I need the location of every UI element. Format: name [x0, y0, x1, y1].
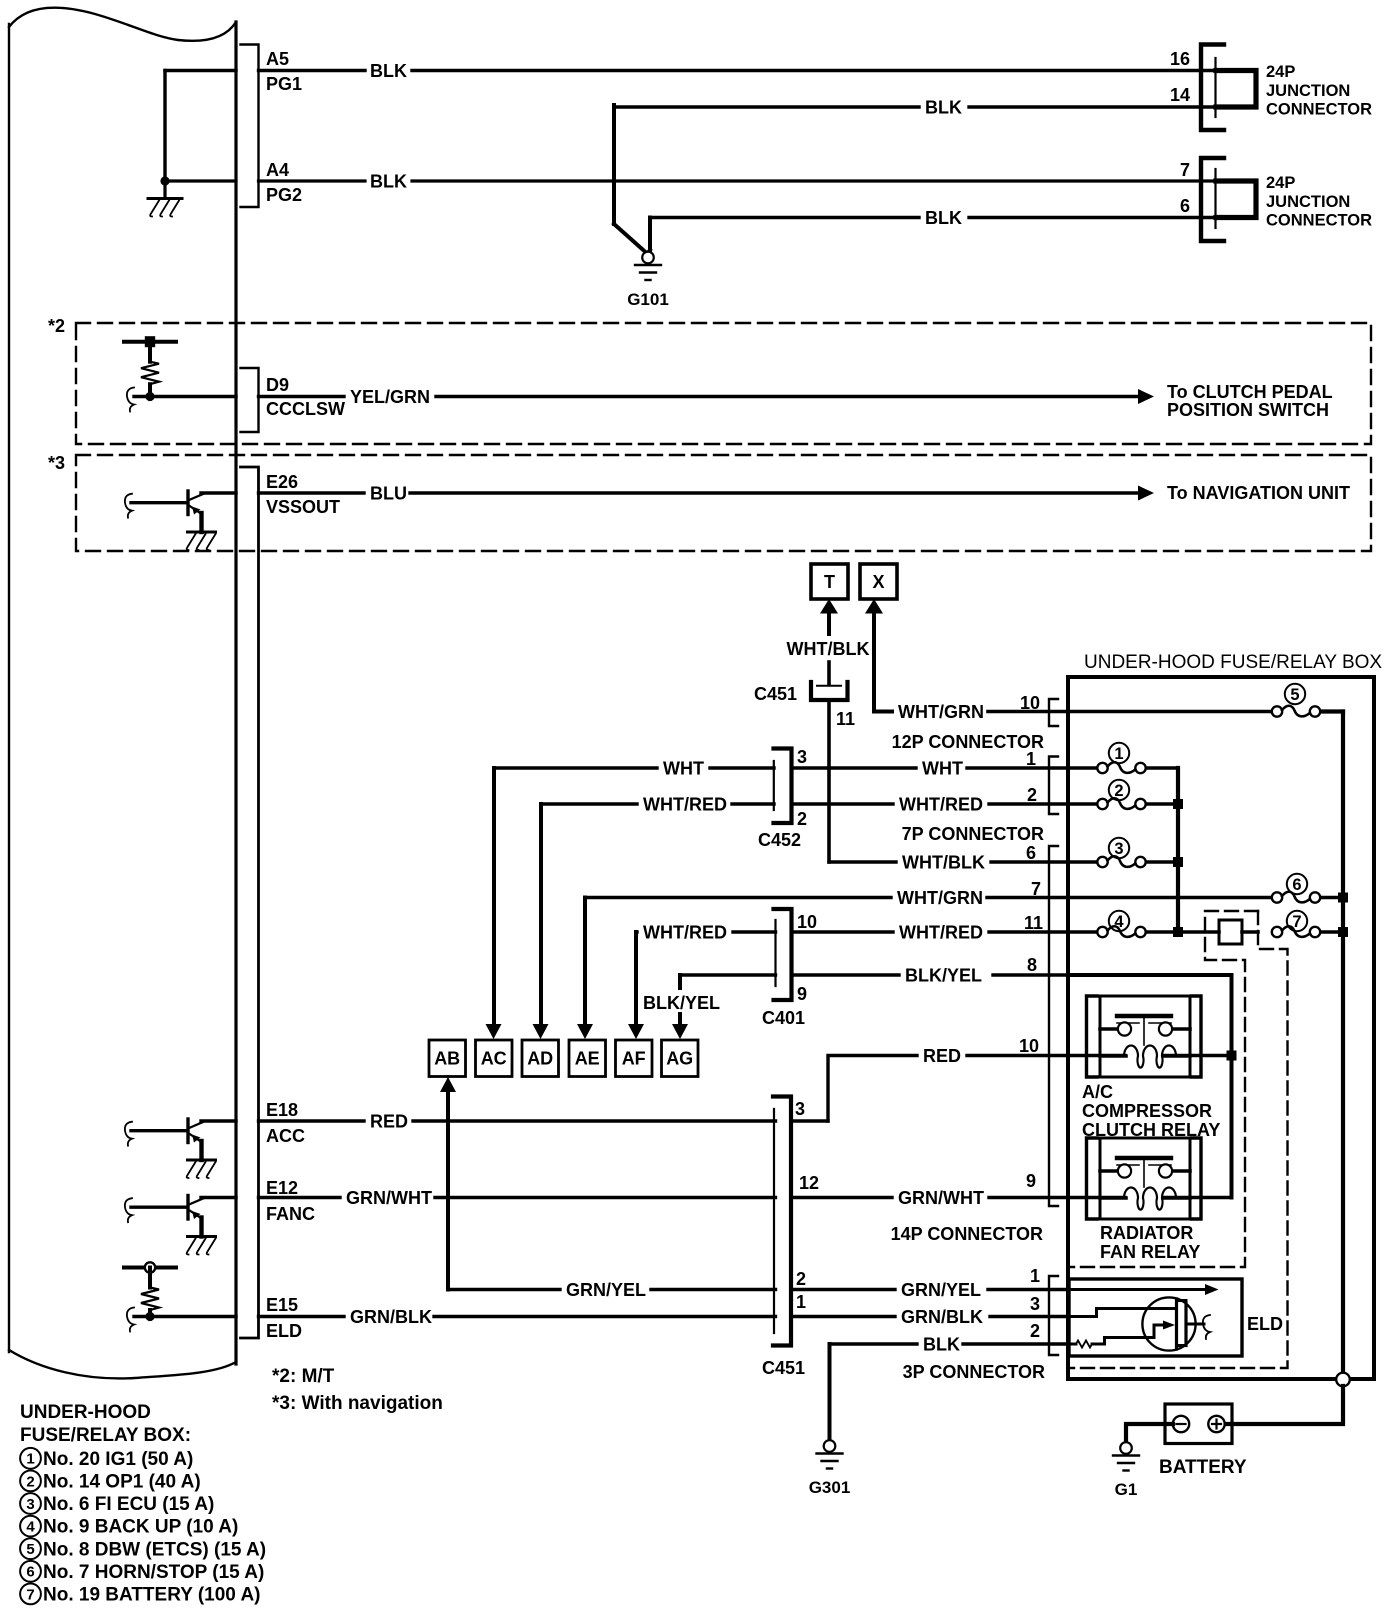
svg-text:FAN RELAY: FAN RELAY [1100, 1242, 1200, 1262]
wire BLK/YEL to relay coils [1068, 975, 1232, 1198]
svg-text:WHT/BLK: WHT/BLK [787, 639, 870, 659]
svg-text:CONNECTOR: CONNECTOR [1266, 212, 1372, 230]
svg-text:*3: With navigation: *3: With navigation [272, 1393, 443, 1414]
svg-text:FANC: FANC [266, 1204, 315, 1224]
svg-text:WHT/BLK: WHT/BLK [902, 853, 985, 873]
relay brackets [1087, 996, 1098, 1077]
connector C401 [774, 909, 792, 1000]
svg-text:14: 14 [1170, 85, 1190, 105]
svg-text:24P: 24P [1266, 174, 1295, 192]
node AB box [429, 1040, 466, 1077]
legend fuse 1 [20, 1448, 41, 1469]
dashed box *2 (M/T) [76, 323, 1371, 444]
svg-text:7: 7 [1180, 160, 1190, 180]
svg-text:No. 9 BACK UP (10 A): No. 9 BACK UP (10 A) [43, 1517, 238, 1538]
ground loop A5-A4 [165, 69, 236, 72]
wire WHT/RED row [541, 802, 637, 805]
svg-text:2: 2 [1030, 1321, 1040, 1341]
svg-text:1: 1 [1026, 749, 1036, 769]
svg-text:AB: AB [434, 1049, 460, 1069]
wire WHT/RED branch to AD [539, 804, 543, 1026]
ground [188, 1235, 216, 1238]
svg-text:BLK: BLK [370, 172, 407, 192]
legend fuse 2 [20, 1471, 41, 1492]
svg-text:10: 10 [1020, 693, 1040, 713]
ground [188, 1159, 216, 1162]
svg-text:A/C: A/C [1082, 1082, 1113, 1102]
svg-text:3: 3 [797, 747, 807, 767]
node T arrow [820, 599, 838, 614]
svg-text:BLK: BLK [923, 1335, 960, 1355]
transistor base wire [125, 1198, 132, 1222]
junction loop 16-14 [1216, 71, 1256, 108]
svg-text:*2: M/T: *2: M/T [272, 1366, 335, 1387]
legend fuse 7 [20, 1584, 41, 1605]
wire BLK to 3P pin 2 [830, 1342, 918, 1345]
node X box [860, 564, 897, 599]
svg-text:RED: RED [370, 1112, 408, 1132]
svg-text:C451: C451 [762, 1358, 805, 1378]
fuse 2 [1109, 780, 1129, 800]
3P connector bracket [1049, 1276, 1058, 1355]
ELD source wire with resistor [1069, 1343, 1076, 1346]
arrow to clutch pedal position switch [1138, 389, 1154, 404]
legend fuse 3 [20, 1493, 41, 1514]
node AG box [662, 1040, 699, 1077]
relay body [1100, 996, 1190, 1077]
svg-text:C451: C451 [754, 684, 797, 704]
ECM/PCM torn-edge outline [9, 8, 236, 41]
wire to G301 [828, 1344, 832, 1441]
svg-text:7P CONNECTOR: 7P CONNECTOR [902, 824, 1044, 844]
connector C451 bottom [773, 1097, 791, 1346]
fuse bus wire [1176, 768, 1180, 932]
svg-text:VSSOUT: VSSOUT [266, 497, 340, 517]
wire D9 YEL/GRN [127, 388, 134, 412]
fuse 4 [1109, 911, 1129, 931]
svg-text:8: 8 [1027, 955, 1037, 975]
svg-text:A5: A5 [266, 49, 289, 69]
svg-text:FUSE/RELAY BOX:: FUSE/RELAY BOX: [20, 1425, 191, 1446]
junction connector 1 bracket [1201, 45, 1224, 131]
svg-text:To CLUTCH PEDAL: To CLUTCH PEDAL [1167, 382, 1333, 402]
svg-text:GRN/BLK: GRN/BLK [901, 1307, 983, 1327]
relay brackets [1087, 1138, 1098, 1219]
node X arrow wire WHT/GRN [865, 599, 883, 614]
svg-text:GRN/WHT: GRN/WHT [346, 1188, 432, 1208]
svg-text:JUNCTION: JUNCTION [1266, 193, 1350, 211]
svg-text:9: 9 [797, 984, 807, 1004]
svg-text:5: 5 [26, 1541, 34, 1558]
wire BLK pin 14 to G101 [614, 105, 919, 108]
ground [163, 183, 166, 197]
svg-text:AG: AG [666, 1049, 693, 1069]
transistor [186, 1196, 189, 1220]
svg-text:6: 6 [1026, 843, 1036, 863]
dashed module outline [1068, 911, 1258, 1267]
svg-text:3: 3 [1030, 1294, 1040, 1314]
svg-text:2: 2 [796, 1269, 806, 1289]
battery [1165, 1404, 1232, 1444]
svg-text:G101: G101 [627, 290, 669, 309]
12P connector bracket [1049, 699, 1058, 726]
svg-text:COMPRESSOR: COMPRESSOR [1082, 1101, 1212, 1121]
14P connector bracket [1049, 846, 1058, 1206]
svg-text:BLU: BLU [370, 484, 407, 504]
ground G1 [1120, 1442, 1132, 1454]
svg-text:AD: AD [527, 1049, 553, 1069]
svg-text:PG1: PG1 [266, 74, 302, 94]
svg-text:To NAVIGATION UNIT: To NAVIGATION UNIT [1167, 483, 1350, 503]
junction connector 2 bracket [1201, 158, 1224, 241]
wire RED row [828, 1056, 917, 1122]
svg-text:No. 19 BATTERY (100 A): No. 19 BATTERY (100 A) [43, 1585, 261, 1606]
node AF box [616, 1040, 653, 1077]
relay contact [1117, 1156, 1171, 1160]
arrow into AG [672, 1024, 688, 1039]
svg-text:12P CONNECTOR: 12P CONNECTOR [892, 732, 1044, 752]
wire battery negative to G1 [1126, 1424, 1173, 1443]
svg-text:14P CONNECTOR: 14P CONNECTOR [891, 1224, 1043, 1244]
svg-text:GRN/BLK: GRN/BLK [350, 1307, 432, 1327]
svg-text:E12: E12 [266, 1178, 298, 1198]
node AE box [569, 1040, 606, 1077]
wire WHT branch to AC [492, 768, 496, 1026]
diode module box [1219, 920, 1242, 944]
svg-text:D9: D9 [266, 375, 289, 395]
connector C451 [817, 685, 841, 687]
ground G301 [824, 1440, 836, 1452]
svg-text:3: 3 [26, 1496, 34, 1513]
clutch switch pull-up resistor [124, 340, 176, 344]
svg-text:11: 11 [836, 709, 855, 729]
svg-text:CONNECTOR: CONNECTOR [1266, 101, 1372, 119]
relay coil [1100, 1054, 1126, 1058]
svg-text:12: 12 [799, 1173, 819, 1193]
wire E15 GRN/BLK [127, 1308, 134, 1332]
svg-text:E26: E26 [266, 472, 298, 492]
svg-text:BATTERY: BATTERY [1159, 1457, 1247, 1478]
ELD sense resistor [124, 1266, 176, 1270]
svg-text:E18: E18 [266, 1100, 298, 1120]
svg-text:WHT/RED: WHT/RED [643, 795, 727, 815]
fuse 1 [1109, 743, 1129, 763]
svg-text:X: X [872, 572, 884, 592]
legend fuse 5 [20, 1538, 41, 1559]
svg-text:9: 9 [1026, 1171, 1036, 1191]
right bus wire [1341, 712, 1345, 1374]
fuse 6 [1287, 874, 1307, 894]
svg-text:2: 2 [797, 809, 807, 829]
node AC box [476, 1040, 513, 1077]
svg-text:T: T [824, 572, 835, 592]
arrow to navigation unit [1138, 486, 1154, 501]
connector bracket A5/A4 [241, 45, 259, 208]
svg-text:RADIATOR: RADIATOR [1100, 1223, 1193, 1243]
under-hood fuse/relay box outline [1068, 677, 1374, 1379]
svg-text:6: 6 [26, 1564, 34, 1581]
wire RED to A/C relay coil [1068, 1054, 1125, 1058]
connector C452 [774, 749, 792, 824]
svg-text:WHT/GRN: WHT/GRN [897, 888, 983, 908]
relay body [1100, 1138, 1190, 1219]
svg-text:3P CONNECTOR: 3P CONNECTOR [903, 1362, 1045, 1382]
svg-text:No. 6 FI ECU (15 A): No. 6 FI ECU (15 A) [43, 1494, 214, 1515]
transistor base wire [125, 494, 132, 518]
relay contact [1117, 1014, 1171, 1018]
svg-text:BLK/YEL: BLK/YEL [905, 966, 982, 986]
fuse 3 [1109, 838, 1129, 858]
wire WHT/GRN row [585, 896, 891, 899]
svg-text:WHT/RED: WHT/RED [899, 795, 983, 815]
svg-text:ELD: ELD [1247, 1314, 1283, 1334]
svg-text:1: 1 [26, 1451, 34, 1468]
svg-text:ELD: ELD [266, 1321, 302, 1341]
svg-text:G301: G301 [809, 1478, 851, 1497]
svg-text:G1: G1 [1115, 1480, 1138, 1499]
legend fuse 4 [20, 1516, 41, 1537]
svg-text:POSITION SWITCH: POSITION SWITCH [1167, 400, 1329, 420]
svg-text:UNDER-HOOD FUSE/RELAY BOX: UNDER-HOOD FUSE/RELAY BOX [1084, 652, 1382, 673]
svg-text:AC: AC [481, 1049, 507, 1069]
wire A4 BLK to junction pin 7 [259, 179, 366, 182]
svg-text:11: 11 [1024, 913, 1043, 933]
svg-text:BLK: BLK [370, 61, 407, 81]
fuse 5 [1285, 684, 1305, 704]
svg-text:24P: 24P [1266, 63, 1295, 81]
arrow into AC [486, 1024, 502, 1039]
connector bracket E26-E15 [241, 467, 259, 1338]
svg-text:5: 5 [1290, 686, 1299, 704]
ELD input arrow wire [1069, 1288, 1205, 1291]
svg-text:BLK: BLK [925, 98, 962, 118]
svg-text:No. 8 DBW (ETCS) (15 A): No. 8 DBW (ETCS) (15 A) [43, 1539, 266, 1560]
junction dot [160, 176, 169, 185]
svg-text:3: 3 [795, 1099, 805, 1119]
transistor [186, 491, 189, 515]
svg-text:*2: *2 [48, 316, 65, 336]
svg-text:No. 7 HORN/STOP (15 A): No. 7 HORN/STOP (15 A) [43, 1562, 264, 1583]
svg-text:BLK: BLK [925, 208, 962, 228]
svg-text:GRN/YEL: GRN/YEL [901, 1280, 981, 1300]
wire WHT/BLK row [829, 860, 896, 863]
svg-text:UNDER-HOOD: UNDER-HOOD [20, 1402, 151, 1423]
relay coil [1100, 1196, 1126, 1200]
node AD box [522, 1040, 559, 1077]
wire GRN/YEL [448, 1288, 560, 1291]
svg-text:WHT/RED: WHT/RED [643, 923, 727, 943]
svg-text:E15: E15 [266, 1295, 298, 1315]
svg-text:GRN/WHT: GRN/WHT [898, 1188, 984, 1208]
svg-text:AF: AF [622, 1049, 646, 1069]
wire to battery positive [1224, 1386, 1343, 1424]
wire BLK pin 6 to G101 [650, 216, 919, 219]
svg-text:6: 6 [1180, 196, 1190, 216]
svg-text:WHT/RED: WHT/RED [899, 923, 983, 943]
svg-text:WHT/GRN: WHT/GRN [898, 702, 984, 722]
node T box [811, 564, 848, 599]
svg-text:16: 16 [1170, 49, 1190, 69]
7P connector bracket [1049, 757, 1058, 815]
svg-text:AE: AE [575, 1049, 600, 1069]
svg-text:10: 10 [797, 912, 817, 932]
svg-text:RED: RED [923, 1046, 961, 1066]
svg-text:1: 1 [1030, 1266, 1040, 1286]
svg-text:2: 2 [26, 1473, 34, 1490]
connector bracket D9 [241, 368, 259, 432]
wire BLK/YEL row via C401 [680, 973, 776, 976]
svg-text:A4: A4 [266, 160, 289, 180]
ground [188, 531, 216, 534]
svg-text:2: 2 [1027, 785, 1037, 805]
svg-text:GRN/YEL: GRN/YEL [566, 1280, 646, 1300]
ELD box [1069, 1279, 1242, 1356]
ground G101 [642, 252, 654, 264]
transistor [186, 1119, 189, 1143]
svg-text:WHT: WHT [663, 759, 704, 779]
svg-text:1: 1 [796, 1292, 806, 1312]
svg-text:C401: C401 [762, 1008, 805, 1028]
junction loop 7-6 [1216, 181, 1256, 218]
svg-text:1: 1 [1114, 745, 1123, 763]
svg-text:CCCLSW: CCCLSW [266, 399, 345, 419]
arrow into AF [628, 1024, 644, 1039]
transistor base wire [125, 1122, 132, 1146]
wire GRN/WHT to fan relay coil [1068, 1196, 1125, 1200]
svg-text:7: 7 [26, 1586, 34, 1603]
svg-text:6: 6 [1292, 876, 1301, 894]
ELD MOSFET [1142, 1297, 1195, 1350]
svg-text:YEL/GRN: YEL/GRN [350, 387, 430, 407]
svg-text:BLK/YEL: BLK/YEL [643, 993, 720, 1013]
arrow into AB [440, 1077, 456, 1092]
svg-text:10: 10 [1019, 1036, 1039, 1056]
wire WHT/RED row via C401 [636, 930, 637, 933]
svg-text:No. 14 OP1 (40 A): No. 14 OP1 (40 A) [43, 1472, 201, 1493]
svg-text:PG2: PG2 [266, 185, 302, 205]
legend fuse 6 [20, 1561, 41, 1582]
arrow into AE [577, 1024, 593, 1039]
svg-text:C452: C452 [758, 830, 801, 850]
svg-text:4: 4 [26, 1519, 35, 1536]
arrow into AD [533, 1024, 549, 1039]
wire WHT/BLK down from C451 [827, 700, 831, 862]
svg-text:7: 7 [1031, 879, 1041, 899]
svg-text:No. 20 IG1 (50 A): No. 20 IG1 (50 A) [43, 1449, 193, 1470]
svg-text:WHT: WHT [922, 759, 963, 779]
svg-text:ACC: ACC [266, 1126, 305, 1146]
bottom edge connector circle [1336, 1373, 1350, 1387]
wire A5 BLK to junction pin 16 [259, 69, 366, 72]
svg-text:JUNCTION: JUNCTION [1266, 82, 1350, 100]
fuse 7 [1287, 911, 1307, 931]
ELD gate wire [1069, 1309, 1176, 1317]
dashed box *3 (navigation) [76, 455, 1371, 551]
wire WHT row [494, 766, 657, 769]
svg-text:*3: *3 [48, 453, 65, 473]
wire BLK/YEL branch to AG [678, 975, 682, 988]
